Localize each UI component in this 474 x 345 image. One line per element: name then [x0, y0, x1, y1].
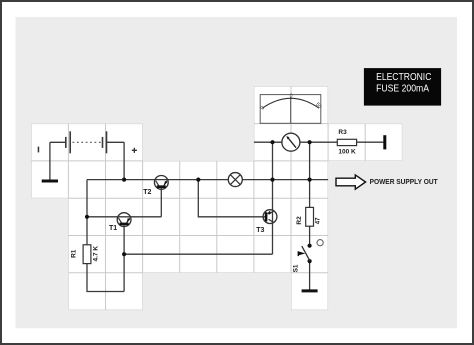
transistor T2	[154, 176, 168, 190]
junction dots	[85, 140, 312, 256]
wire long return rail row4	[124, 253, 272, 255]
battery B1	[38, 131, 137, 153]
lamp	[228, 173, 242, 187]
wire main rail	[87, 179, 328, 181]
battery dotted middle	[73, 141, 102, 143]
wire R1 top lead	[86, 217, 88, 245]
switch S1	[298, 240, 323, 264]
wire meter left dot down to rail	[272, 142, 274, 179]
wire T3 base branch from rail	[198, 180, 265, 217]
wire meter row right to R3	[300, 141, 337, 143]
wire R1 bottom lead to bottom rail	[87, 264, 124, 292]
svg-text:0: 0	[290, 93, 293, 99]
wire battery minus lead	[50, 142, 66, 180]
svg-text:FUSE 200mA: FUSE 200mA	[376, 83, 429, 94]
wire R2 to switch	[309, 226, 311, 246]
wire node junction to T1 through wire	[87, 216, 161, 218]
node rail meter left	[270, 178, 274, 182]
node T1 base R1	[85, 215, 89, 219]
wire switch to ground	[309, 261, 311, 290]
node T1 emitter return	[122, 252, 126, 256]
node battery plus rail	[122, 178, 126, 182]
ground battery	[42, 180, 58, 183]
white canvas cells	[31, 86, 402, 310]
wire rail corner down to T1 base junction	[86, 180, 88, 217]
svg-text:R1: R1	[70, 249, 77, 258]
svg-text:T1: T1	[109, 225, 117, 232]
svg-text:R2: R2	[296, 216, 303, 225]
battery minus label	[38, 147, 40, 153]
wire rail down to R2	[309, 180, 311, 208]
power supply out arrow	[336, 175, 366, 189]
transistor T1	[117, 213, 131, 227]
node T3 base branch	[196, 178, 200, 182]
svg-text:47: 47	[315, 217, 321, 224]
wire T1 emitter lead down	[123, 225, 125, 291]
svg-text:R3: R3	[338, 129, 347, 136]
svg-text:100 K: 100 K	[338, 149, 356, 156]
wire battery plus lead	[107, 142, 125, 179]
node rail R2	[308, 178, 312, 182]
svg-text:4.7 K: 4.7 K	[93, 246, 100, 262]
wire meter row left stub	[254, 141, 282, 143]
svg-text:POWER SUPPLY OUT: POWER SUPPLY OUT	[370, 177, 438, 186]
transistor T3	[263, 210, 277, 224]
title box	[364, 68, 441, 106]
svg-text:T3: T3	[256, 227, 264, 234]
battery plus label	[132, 148, 137, 153]
grid lines clipped to white cells	[20, 60, 420, 330]
resistor R3	[337, 139, 356, 145]
wire T3 collector-emitter vertical	[272, 180, 274, 255]
meter circle M1	[282, 133, 300, 151]
node meter right	[308, 140, 312, 144]
svg-text:S1: S1	[293, 264, 300, 272]
svg-text:ELECTRONIC: ELECTRONIC	[376, 72, 432, 83]
wire meter right dot down to rail	[309, 142, 311, 179]
battery plate short right	[102, 137, 104, 148]
svg-text:T2: T2	[143, 189, 151, 196]
ground switch	[302, 289, 318, 292]
battery plate short left	[65, 137, 67, 148]
resistor R1	[83, 245, 91, 264]
meter display scale	[260, 93, 323, 123]
wire R3 to terminal	[357, 141, 384, 143]
terminal bar output	[383, 135, 386, 149]
battery plate tall left	[69, 131, 71, 153]
resistor R2	[306, 207, 314, 226]
battery plate tall right	[106, 131, 108, 153]
wire T2 collector lead down	[160, 187, 162, 217]
node meter left	[270, 140, 274, 144]
